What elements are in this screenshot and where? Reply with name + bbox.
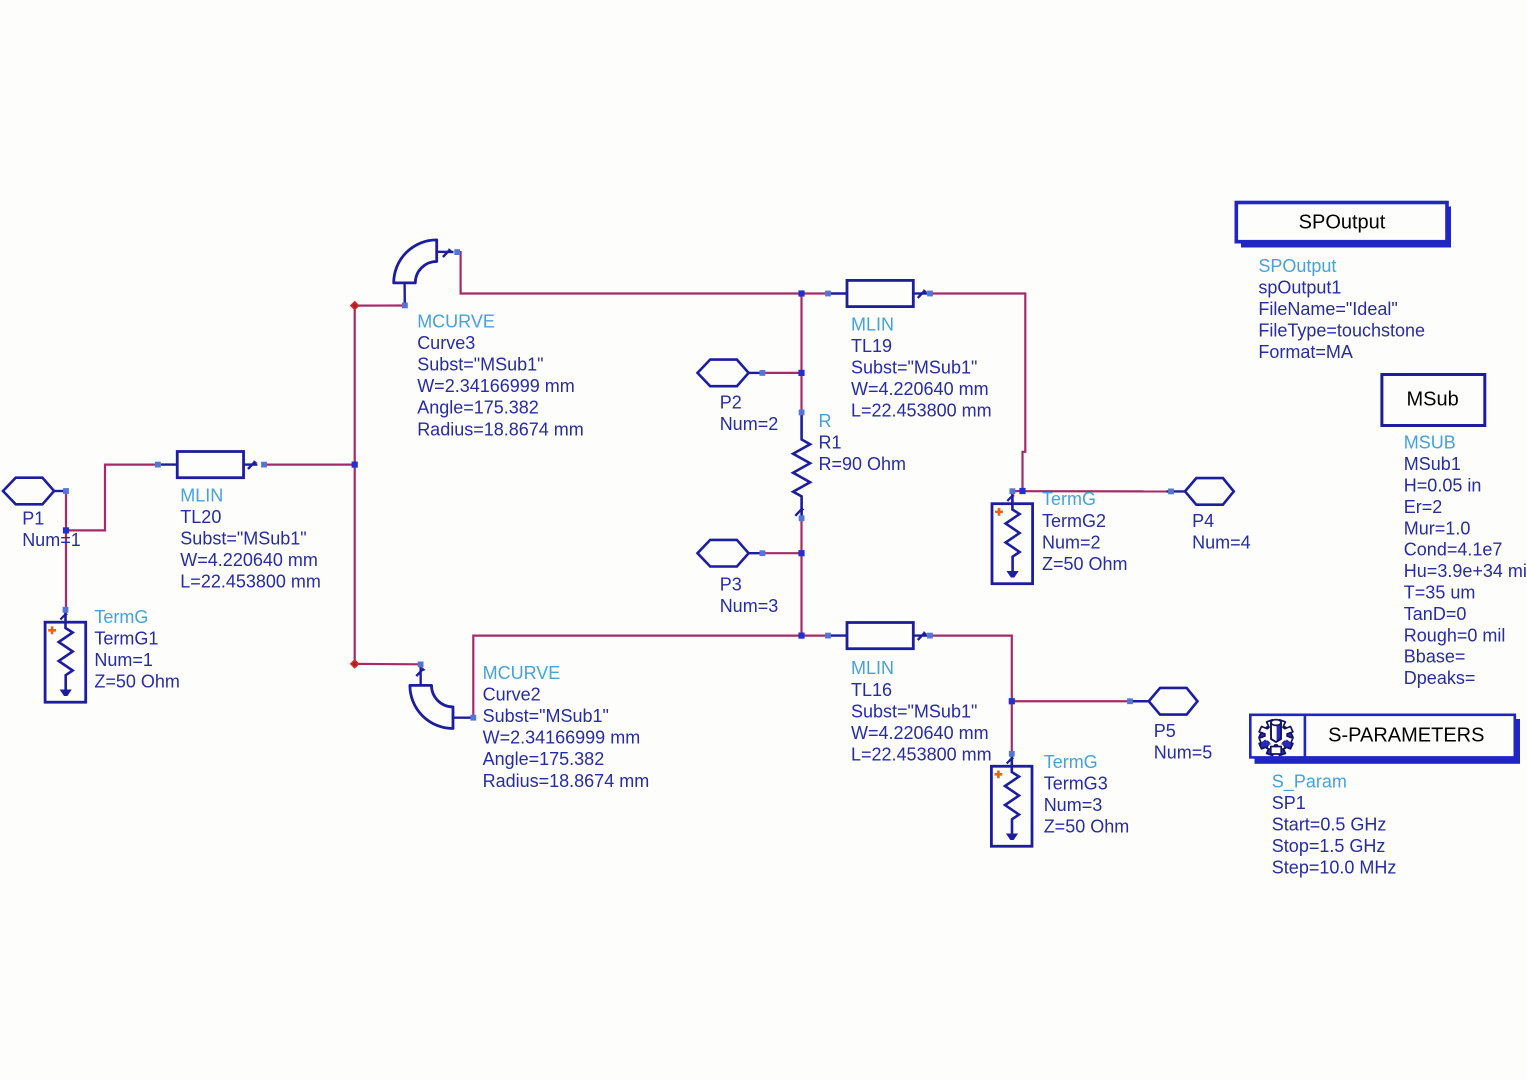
junction left bus / TL20 <box>352 462 358 468</box>
svg-text:Mur=1.0: Mur=1.0 <box>1404 518 1471 538</box>
wire R1 pin2 to bottom node <box>800 518 802 635</box>
microstrip line TL16 <box>831 623 928 649</box>
pin TL16.2 <box>927 633 933 639</box>
MSub block box <box>1382 375 1485 426</box>
junction TermG2 node <box>1019 488 1025 494</box>
svg-text:W=2.34166999 mm: W=2.34166999 mm <box>417 376 575 396</box>
label TL20 values <box>180 485 321 591</box>
svg-text:TanD=0: TanD=0 <box>1404 604 1467 624</box>
svg-text:SP1: SP1 <box>1272 793 1306 813</box>
svg-text:Radius=18.8674 mm: Radius=18.8674 mm <box>417 419 584 439</box>
svg-text:TermG3: TermG3 <box>1044 773 1108 793</box>
svg-text:W=2.34166999 mm: W=2.34166999 mm <box>483 728 641 748</box>
svg-text:TermG: TermG <box>1042 489 1096 509</box>
R1 pin2 tick <box>795 507 804 516</box>
port P2 <box>698 360 761 387</box>
svg-text:P4: P4 <box>1192 511 1214 531</box>
svg-text:L=22.453800 mm: L=22.453800 mm <box>180 572 321 592</box>
svg-text:L=22.453800 mm: L=22.453800 mm <box>851 744 992 764</box>
svg-text:Subst="MSub1": Subst="MSub1" <box>851 701 977 721</box>
wire P2 to bus <box>762 372 801 374</box>
junction top node <box>798 290 804 296</box>
svg-text:Bbase=: Bbase= <box>1404 647 1466 667</box>
wire junction to TL20 pin1 <box>66 465 156 531</box>
svg-text:Num=3: Num=3 <box>1044 795 1103 815</box>
wire TL16 pin2 down to TermG3 node <box>930 636 1012 702</box>
svg-text:Rough=0 mil: Rough=0 mil <box>1404 625 1506 645</box>
label R1 values <box>819 411 907 474</box>
pin TL16.1 <box>825 633 831 639</box>
wire Curve3 pin1 to top node <box>457 252 801 293</box>
svg-text:TermG: TermG <box>1044 752 1098 772</box>
SPOutput block box <box>1236 203 1451 248</box>
label TermG2 values <box>1042 489 1128 574</box>
pin R1.2 <box>799 515 805 521</box>
svg-text:TL20: TL20 <box>180 507 221 527</box>
port P4 <box>1167 478 1234 505</box>
wire junction down to TermG1 <box>65 530 67 609</box>
svg-text:FileType=touchstone: FileType=touchstone <box>1258 321 1425 341</box>
wire P1 to junction <box>65 491 67 530</box>
junction TermG3 node <box>1009 698 1015 704</box>
svg-text:W=4.220640 mm: W=4.220640 mm <box>180 550 318 570</box>
wire P3 to bus <box>762 552 801 554</box>
wire node to TermG2 pin <box>1012 490 1022 492</box>
S-PARAMETERS block box <box>1250 714 1520 764</box>
pin Curve2.2 <box>470 715 476 721</box>
svg-text:spOutput1: spOutput1 <box>1258 278 1341 298</box>
node marker top-left <box>350 301 360 311</box>
svg-text:TL16: TL16 <box>851 680 892 700</box>
Curve2 pin1 tick <box>416 667 425 676</box>
svg-text:SPOutput: SPOutput <box>1258 256 1336 276</box>
pin TermG1 <box>63 607 69 613</box>
svg-text:MLIN: MLIN <box>851 658 894 678</box>
label P2 Num=2 <box>720 393 779 435</box>
pin TermG2 <box>1010 488 1016 494</box>
svg-text:Step=10.0 MHz: Step=10.0 MHz <box>1272 858 1397 878</box>
svg-text:Subst="MSub1": Subst="MSub1" <box>180 529 306 549</box>
port P3 <box>698 540 761 567</box>
wire bus top node to R1 pin1 <box>800 294 802 413</box>
svg-text:Hu=3.9e+34 mil: Hu=3.9e+34 mil <box>1404 561 1527 581</box>
junction bottom node <box>798 633 804 639</box>
wire node to port P4 <box>1023 490 1172 492</box>
junction P2 node <box>798 370 804 376</box>
wire TL19 pin2 down to TermG2 node <box>930 294 1025 492</box>
termination TermG1 <box>45 612 86 703</box>
svg-text:Radius=18.8674 mm: Radius=18.8674 mm <box>483 771 650 791</box>
svg-text:P2: P2 <box>720 393 742 413</box>
wire Curve2 pin2 to bottom node <box>473 636 801 718</box>
wire node to Curve3 pin2 <box>355 304 405 306</box>
label TL19 values <box>851 315 992 421</box>
svg-text:H=0.05 in: H=0.05 in <box>1404 476 1482 496</box>
pin P3 <box>760 550 766 556</box>
svg-text:Stop=1.5 GHz: Stop=1.5 GHz <box>1272 836 1386 856</box>
pin R1.1 <box>799 410 805 416</box>
svg-text:R=90 Ohm: R=90 Ohm <box>819 454 907 474</box>
svg-text:Subst="MSub1": Subst="MSub1" <box>483 706 609 726</box>
svg-text:S-PARAMETERS: S-PARAMETERS <box>1328 725 1484 747</box>
svg-text:FileName="Ideal": FileName="Ideal" <box>1258 299 1397 319</box>
port P5 <box>1130 688 1197 715</box>
svg-text:Subst="MSub1": Subst="MSub1" <box>417 355 543 375</box>
svg-text:Num=2: Num=2 <box>720 414 779 434</box>
svg-text:T=35 um: T=35 um <box>1404 583 1476 603</box>
pin P5 <box>1127 698 1133 704</box>
svg-text:TL19: TL19 <box>851 336 892 356</box>
svg-text:Z=50 Ohm: Z=50 Ohm <box>1044 816 1130 836</box>
wire top node to TL19 pin1 <box>802 292 829 294</box>
wire node to Curve2 pin1 <box>355 663 421 666</box>
svg-text:Start=0.5 GHz: Start=0.5 GHz <box>1272 815 1387 835</box>
wire node to port P5 <box>1012 700 1130 702</box>
label TermG1 values <box>94 607 180 692</box>
port P1 <box>3 478 66 505</box>
termination TermG2 <box>992 493 1033 584</box>
svg-text:TermG: TermG <box>94 607 148 627</box>
microstrip line TL20 <box>161 452 258 478</box>
svg-text:Num=1: Num=1 <box>94 650 153 670</box>
label SPOutput values <box>1258 256 1425 362</box>
pin P4 <box>1168 489 1174 495</box>
svg-text:MCURVE: MCURVE <box>417 312 495 332</box>
svg-text:Curve3: Curve3 <box>417 333 475 353</box>
svg-text:Num=2: Num=2 <box>1042 532 1101 552</box>
microstrip line TL19 <box>831 280 928 306</box>
svg-text:P3: P3 <box>720 575 742 595</box>
svg-text:MSub: MSub <box>1406 389 1458 411</box>
svg-text:Curve2: Curve2 <box>483 685 541 705</box>
label P5 Num=5 <box>1154 721 1213 763</box>
svg-text:Z=50 Ohm: Z=50 Ohm <box>94 672 180 692</box>
svg-text:Num=1: Num=1 <box>22 530 81 550</box>
svg-text:Angle=175.382: Angle=175.382 <box>417 398 539 418</box>
pin Curve3.1 <box>454 249 460 255</box>
resistor R1 <box>793 414 810 516</box>
pin TL19.1 <box>825 291 831 297</box>
svg-text:TermG1: TermG1 <box>94 628 158 648</box>
label Curve3 values <box>417 312 584 440</box>
svg-text:Num=3: Num=3 <box>720 596 779 616</box>
svg-text:Cond=4.1e7: Cond=4.1e7 <box>1404 540 1503 560</box>
svg-text:MLIN: MLIN <box>851 315 894 335</box>
svg-text:Num=4: Num=4 <box>1192 533 1251 553</box>
junction P1 node <box>63 527 69 533</box>
wire bottom node to TL16 pin1 <box>802 634 829 636</box>
label Curve2 values <box>483 663 650 791</box>
svg-text:Num=5: Num=5 <box>1154 742 1213 762</box>
svg-text:MCURVE: MCURVE <box>483 663 561 683</box>
label P1 Num=1 <box>22 508 81 550</box>
svg-text:MLIN: MLIN <box>180 485 223 505</box>
label P3 Num=3 <box>720 575 779 617</box>
termination TermG3 <box>991 756 1032 847</box>
label P4 Num=4 <box>1192 511 1251 553</box>
svg-text:R1: R1 <box>819 433 842 453</box>
svg-text:Format=MA: Format=MA <box>1258 342 1353 362</box>
wire node down to TermG3 pin <box>1011 701 1013 754</box>
pin P2 <box>760 370 766 376</box>
svg-text:Angle=175.382: Angle=175.382 <box>483 749 605 769</box>
label TermG3 values <box>1044 752 1130 837</box>
Curve3 pin1 tick <box>443 248 452 257</box>
svg-text:W=4.220640 mm: W=4.220640 mm <box>851 723 989 743</box>
svg-text:TermG2: TermG2 <box>1042 511 1106 531</box>
svg-text:MSub1: MSub1 <box>1404 454 1461 474</box>
pin TermG3 <box>1009 751 1015 757</box>
svg-text:S_Param: S_Param <box>1272 772 1347 793</box>
microstrip curve Curve3 <box>394 240 454 303</box>
svg-text:P1: P1 <box>22 508 44 528</box>
microstrip curve Curve2 <box>410 667 471 729</box>
wire left bus vertical <box>354 306 356 664</box>
pin Curve2.1 <box>418 662 424 668</box>
pin Curve3.2 <box>402 303 408 309</box>
junction P3 node <box>798 550 804 556</box>
svg-text:MSUB: MSUB <box>1404 433 1456 453</box>
svg-text:SPOutput: SPOutput <box>1299 211 1386 233</box>
pin TL20.2 <box>261 462 267 468</box>
label TL16 values <box>851 658 992 764</box>
wire TL20 pin2 to left bus <box>264 464 355 466</box>
S-parameters gear icon <box>1259 720 1293 756</box>
pin P1 <box>63 488 69 494</box>
label S_Param values <box>1272 772 1397 878</box>
svg-text:Z=50 Ohm: Z=50 Ohm <box>1042 554 1128 574</box>
pin TL20.1 <box>155 462 161 468</box>
svg-text:W=4.220640 mm: W=4.220640 mm <box>851 379 989 399</box>
label MSub values <box>1404 433 1527 688</box>
svg-text:Dpeaks=: Dpeaks= <box>1404 668 1476 688</box>
node marker bottom-left <box>350 659 360 669</box>
svg-text:L=22.453800 mm: L=22.453800 mm <box>851 401 992 421</box>
pin TL19.2 <box>927 291 933 297</box>
svg-text:R: R <box>819 411 832 431</box>
svg-text:Er=2: Er=2 <box>1404 497 1443 517</box>
svg-text:Subst="MSub1": Subst="MSub1" <box>851 358 977 378</box>
svg-text:P5: P5 <box>1154 721 1176 741</box>
